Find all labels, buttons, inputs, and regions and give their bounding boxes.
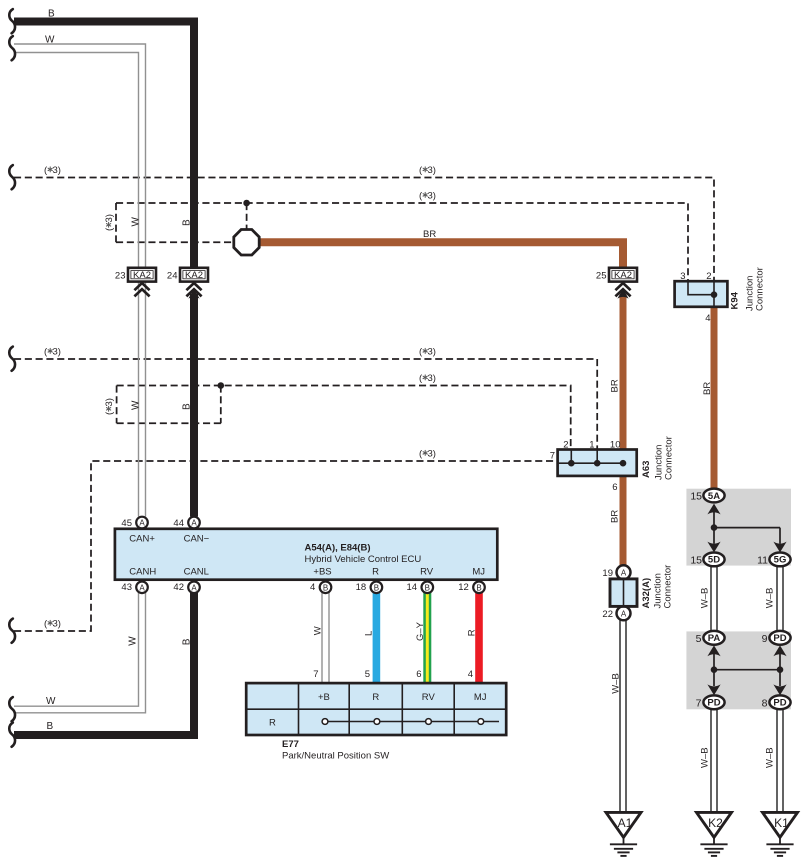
svg-text:1: 1 (589, 439, 594, 450)
svg-text:W: W (130, 217, 141, 227)
svg-text:KA2: KA2 (185, 270, 203, 281)
svg-text:RV: RV (422, 692, 436, 703)
svg-text:L: L (363, 631, 374, 636)
svg-text:3): 3) (428, 346, 436, 357)
svg-text:B: B (476, 583, 481, 592)
svg-text:A: A (139, 519, 145, 528)
svg-text:12: 12 (458, 582, 469, 593)
svg-text:A: A (191, 519, 197, 528)
svg-text:B: B (374, 583, 379, 592)
svg-text:44: 44 (173, 518, 184, 529)
svg-text:9: 9 (762, 633, 768, 645)
svg-text:2: 2 (706, 271, 711, 282)
svg-text:K94: K94 (730, 291, 741, 309)
svg-text:A: A (621, 568, 627, 577)
svg-text:W–B: W–B (765, 588, 776, 609)
svg-text:15: 15 (690, 491, 702, 503)
svg-text:CAN+: CAN+ (129, 534, 155, 545)
svg-text:A63: A63 (641, 461, 652, 478)
svg-text:A: A (621, 609, 627, 618)
svg-text:KA2: KA2 (133, 270, 151, 281)
svg-text:4: 4 (705, 313, 710, 324)
svg-text:5: 5 (365, 669, 370, 680)
svg-text:45: 45 (121, 518, 132, 529)
svg-text:CANL: CANL (184, 566, 209, 577)
svg-text:W: W (46, 696, 56, 707)
svg-text:W–B: W–B (765, 747, 776, 768)
svg-text:43: 43 (121, 582, 132, 593)
svg-text:22: 22 (602, 609, 613, 620)
svg-text:3): 3) (53, 165, 61, 176)
svg-text:25: 25 (596, 271, 607, 282)
svg-text:11: 11 (757, 555, 768, 567)
svg-text:3): 3) (53, 618, 61, 629)
svg-text:8: 8 (762, 697, 768, 709)
svg-text:A1: A1 (618, 816, 633, 830)
svg-text:R: R (269, 718, 276, 729)
svg-text:19: 19 (602, 568, 613, 579)
svg-text:A: A (191, 583, 197, 592)
svg-text:4: 4 (468, 669, 473, 680)
svg-text:B: B (182, 219, 193, 226)
svg-text:PD: PD (773, 633, 786, 644)
svg-text:3): 3) (104, 214, 115, 222)
svg-text:W–B: W–B (610, 673, 621, 694)
svg-text:A32(A): A32(A) (641, 578, 652, 609)
svg-text:MJ: MJ (474, 692, 487, 703)
svg-text:3): 3) (104, 398, 115, 406)
svg-text:5: 5 (696, 633, 702, 645)
svg-text:W: W (128, 636, 139, 646)
svg-text:Hybrid Vehicle Control ECU: Hybrid Vehicle Control ECU (305, 554, 422, 565)
svg-text:R: R (466, 629, 477, 636)
svg-text:CANH: CANH (129, 566, 156, 577)
svg-text:BR: BR (702, 382, 713, 395)
svg-text:6: 6 (612, 482, 617, 493)
svg-text:R: R (372, 692, 379, 703)
svg-text:B: B (48, 8, 55, 19)
svg-text:B: B (182, 638, 193, 645)
svg-text:23: 23 (115, 271, 126, 282)
svg-text:B: B (182, 403, 193, 410)
svg-text:2: 2 (563, 439, 568, 450)
svg-text:24: 24 (167, 271, 178, 282)
svg-text:5G: 5G (774, 555, 787, 566)
svg-text:5A: 5A (708, 491, 720, 502)
svg-text:MJ: MJ (472, 566, 485, 577)
svg-text:CAN−: CAN− (184, 534, 210, 545)
svg-text:5D: 5D (708, 555, 720, 566)
svg-text:R: R (372, 566, 379, 577)
svg-text:W: W (45, 35, 55, 46)
svg-text:10: 10 (610, 439, 621, 450)
svg-text:RV: RV (420, 566, 434, 577)
svg-text:Connector: Connector (663, 565, 674, 609)
svg-text:6: 6 (416, 669, 421, 680)
svg-text:Connector: Connector (755, 267, 766, 311)
svg-text:3): 3) (428, 373, 436, 384)
svg-text:15: 15 (690, 555, 702, 567)
svg-text:BR: BR (610, 379, 621, 392)
svg-text:Park/Neutral Position SW: Park/Neutral Position SW (282, 750, 389, 761)
svg-text:3): 3) (53, 346, 61, 357)
svg-text:K1: K1 (774, 816, 789, 830)
svg-text:W–B: W–B (700, 747, 711, 768)
svg-text:W: W (130, 400, 141, 410)
svg-text:3): 3) (428, 448, 436, 459)
svg-text:4: 4 (310, 582, 315, 593)
svg-text:W–B: W–B (700, 588, 711, 609)
svg-text:B: B (425, 583, 430, 592)
svg-text:18: 18 (356, 582, 367, 593)
svg-text:W: W (313, 626, 324, 635)
svg-text:7: 7 (696, 697, 702, 709)
svg-text:+BS: +BS (313, 566, 331, 577)
svg-text:B: B (47, 721, 54, 732)
svg-text:G–Y: G–Y (415, 621, 426, 641)
svg-text:7: 7 (550, 450, 555, 461)
svg-text:42: 42 (173, 582, 184, 593)
svg-text:PA: PA (708, 633, 721, 644)
svg-text:+B: +B (318, 692, 330, 703)
svg-text:K2: K2 (708, 816, 723, 830)
svg-text:A: A (139, 583, 145, 592)
svg-text:A54(A), E84(B): A54(A), E84(B) (305, 542, 371, 553)
svg-text:3): 3) (428, 190, 436, 201)
svg-text:7: 7 (313, 669, 318, 680)
svg-text:3: 3 (680, 271, 685, 282)
svg-text:BR: BR (423, 229, 436, 240)
svg-text:B: B (323, 583, 328, 592)
svg-text:KA2: KA2 (614, 270, 632, 281)
svg-text:BR: BR (610, 510, 621, 523)
svg-text:Connector: Connector (664, 436, 675, 480)
svg-text:3): 3) (428, 165, 436, 176)
svg-text:PD: PD (707, 698, 720, 709)
svg-text:14: 14 (407, 582, 418, 593)
svg-text:PD: PD (773, 698, 786, 709)
svg-text:E77: E77 (282, 739, 299, 750)
